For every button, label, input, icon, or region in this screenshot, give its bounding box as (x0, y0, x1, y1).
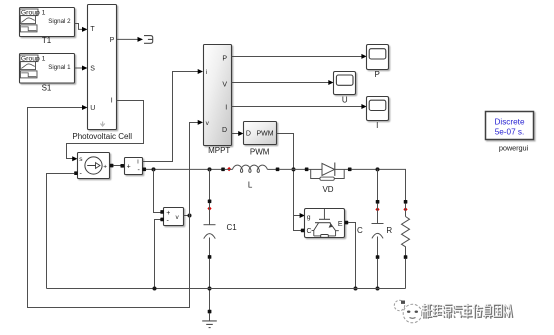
signal builder T1 (20, 8, 75, 46)
ground (202, 310, 217, 328)
svg-text:T: T (90, 26, 95, 33)
svg-text:Discrete: Discrete (494, 118, 524, 127)
svg-text:U: U (342, 96, 348, 105)
wire PV P to terminator (117, 38, 138, 40)
signal builder S1 (20, 54, 75, 93)
svg-text:D: D (222, 127, 227, 134)
junction collector node (292, 167, 296, 171)
wire v to MPPT v (190, 123, 199, 216)
svg-text:Signal 2: Signal 2 (48, 18, 71, 25)
svg-text:U: U (90, 105, 95, 112)
wire MPPT V to scope U (232, 82, 330, 84)
junction v- bottom rail (153, 287, 157, 291)
capacitor C1 branch (204, 169, 238, 310)
terminator block (144, 36, 153, 44)
svg-text:VD: VD (322, 185, 333, 194)
inductor L coil (233, 165, 268, 172)
watermark logo (394, 300, 422, 323)
svg-text:I: I (376, 121, 378, 130)
node: top rail (146, 168, 222, 170)
svg-text:S: S (90, 66, 95, 73)
svg-text:E: E (338, 221, 343, 228)
svg-text:C1: C1 (227, 223, 238, 232)
svg-text:5e-07 s.: 5e-07 s. (495, 128, 525, 137)
svg-text:i: i (137, 158, 138, 165)
port square current source + (110, 164, 114, 168)
svg-text:+: + (127, 164, 131, 171)
controlled current source (78, 153, 110, 179)
svg-text:C: C (357, 226, 363, 235)
wire current source + to current measurement (113, 165, 121, 167)
wire coil to port (267, 168, 276, 170)
port square inductor left (221, 168, 225, 172)
resistor R branch (386, 169, 409, 288)
svg-text:+: + (166, 210, 170, 217)
svg-text:MPPT: MPPT (208, 146, 230, 155)
junction C top (376, 167, 380, 171)
wire IGBT E to bottom rail (348, 223, 356, 289)
svg-text:g: g (307, 214, 311, 221)
wire MPPT P to scope P (232, 56, 362, 58)
junction C bottom rail (376, 287, 380, 291)
wire v- to bottom rail (155, 220, 161, 289)
port square inductor right (276, 168, 280, 172)
powergui block (486, 112, 534, 153)
wire rail inductor to diode (279, 168, 305, 170)
svg-text:PWM: PWM (256, 131, 273, 138)
port square v + (160, 210, 164, 214)
junction E bottom rail (354, 287, 358, 291)
svg-text:I: I (225, 105, 227, 112)
wire U feedback (28, 108, 190, 308)
svg-text:+: + (103, 163, 107, 170)
junction i- (152, 167, 156, 171)
subsystem MPPT (204, 45, 232, 155)
svg-text:T1: T1 (42, 36, 52, 45)
svg-text:S1: S1 (42, 83, 52, 92)
wire port to coil (225, 168, 233, 170)
svg-text:L: L (248, 181, 253, 190)
subsystem Photovoltaic Cell (72, 5, 132, 142)
wire rail diode to R corner (351, 169, 406, 200)
port square IGBT C (301, 229, 305, 233)
svg-text:P: P (222, 55, 227, 62)
junction v out (188, 214, 192, 218)
port square diode right (348, 168, 352, 172)
IGBT (305, 209, 345, 238)
svg-text:V: V (222, 81, 227, 88)
wire i signal to MPPT i (143, 72, 199, 162)
port square IGBT E (345, 221, 349, 225)
voltage measurement v (164, 208, 184, 226)
port square i - (142, 168, 146, 172)
junction C1 top (208, 167, 212, 171)
watermark text (422, 304, 513, 318)
wire T1 to PV T (75, 24, 83, 30)
scope I (367, 97, 389, 130)
svg-text:Photovoltaic Cell: Photovoltaic Cell (72, 132, 132, 141)
wire MPPT I to scope I (232, 106, 362, 108)
svg-text:R: R (386, 226, 392, 235)
port square v - (160, 218, 164, 222)
port square diode left (305, 168, 309, 172)
wire v output (184, 215, 190, 217)
svg-text:i: i (206, 69, 207, 76)
current measurement i (125, 158, 143, 175)
scope U (334, 72, 356, 105)
red plus inductor (227, 167, 231, 171)
capacitor C branch (372, 169, 384, 288)
junction C1 bottom rail (208, 287, 212, 291)
svg-text:I: I (111, 98, 113, 105)
block PWM (244, 122, 277, 157)
svg-text:PWM: PWM (250, 148, 270, 157)
svg-text:P: P (110, 37, 115, 44)
wire MPPT D to PWM (232, 133, 239, 135)
wire PV I to current source s (67, 101, 144, 159)
svg-text:P: P (375, 70, 380, 79)
wire current source - to bottom rail (47, 174, 75, 289)
svg-text:powergui: powergui (499, 144, 529, 153)
wire v+ tap (154, 169, 161, 212)
port square current source - (74, 171, 78, 175)
wire PWM to IGBT g and collector node (277, 134, 302, 231)
diode VD (308, 163, 348, 195)
bottom rail (47, 288, 406, 290)
svg-text:C: C (307, 228, 312, 235)
svg-text:Signal 1: Signal 1 (48, 64, 71, 71)
svg-text:D: D (246, 131, 251, 138)
scope P (367, 45, 389, 80)
wire S1 to PV S (75, 67, 83, 69)
port square i + (120, 164, 124, 168)
